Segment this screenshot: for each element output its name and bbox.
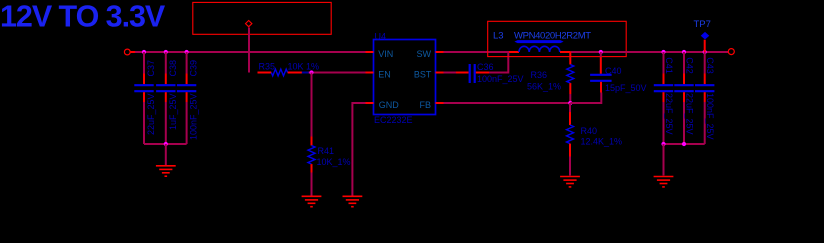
wire C36 to SW net — [489, 52, 508, 73]
resistor R35 — [258, 62, 320, 76]
wire R41 to ground — [311, 173, 313, 196]
ground R40 — [560, 177, 580, 187]
wire output caps bottom bus — [664, 143, 705, 145]
resistor R40 — [567, 103, 623, 157]
wire FB to node — [444, 102, 571, 104]
capacitor C36 — [456, 62, 524, 84]
wire from port diamond down to R35 — [248, 28, 250, 73]
IC U4 buck regulator EC2232E — [366, 31, 444, 125]
svg-text:C38: C38 — [168, 60, 178, 77]
wire input caps bottom bus — [144, 143, 187, 145]
svg-text:L3: L3 — [493, 31, 504, 42]
svg-text:R36: R36 — [531, 70, 548, 80]
port diamond (12V net connector) — [246, 21, 252, 27]
node EN — [309, 70, 313, 74]
svg-text:EN: EN — [378, 70, 391, 80]
svg-text:1uF_25V: 1uF_25V — [168, 94, 178, 131]
svg-text:22uF_25V: 22uF_25V — [146, 94, 156, 136]
pin EN — [366, 72, 374, 74]
wire FB node to C40 bottom — [570, 93, 601, 104]
svg-text:R35: R35 — [259, 62, 276, 72]
svg-text:10K 1%: 10K 1% — [288, 62, 320, 72]
svg-text:EC2232E: EC2232E — [374, 115, 413, 125]
wire R36 to FB node — [569, 94, 571, 103]
inductor L3 — [493, 30, 591, 52]
wire R35 to EN — [302, 72, 366, 74]
svg-text:C36: C36 — [477, 62, 494, 72]
node input-C39 — [185, 50, 189, 54]
node output bottom C42 — [682, 142, 686, 146]
pin BST — [436, 72, 444, 74]
svg-text:R41: R41 — [318, 146, 335, 156]
svg-text:GND: GND — [379, 100, 400, 110]
svg-text:10K_1%: 10K_1% — [317, 157, 351, 167]
svg-text:100nF_25V: 100nF_25V — [477, 74, 524, 84]
wire to output ground — [663, 144, 665, 176]
svg-text:100nF_25V: 100nF_25V — [705, 93, 715, 140]
wire U4 GND to ground — [352, 103, 365, 196]
svg-text:22uF_25V: 22uF_25V — [664, 93, 674, 135]
capacitor C43 — [695, 52, 715, 144]
capacitor C42 — [674, 52, 694, 144]
capacitor C39 — [177, 52, 199, 144]
wire R40 to ground — [569, 157, 571, 176]
node C42 top — [682, 50, 686, 54]
node C41 top — [661, 50, 665, 54]
node input-C37 — [142, 50, 146, 54]
red highlight box (input port area) — [193, 2, 331, 34]
svg-text:12V TO 3.3V: 12V TO 3.3V — [0, 0, 166, 34]
red highlight box (inductor area) — [488, 21, 627, 56]
ground input caps — [156, 166, 176, 176]
ground U4 — [343, 196, 363, 206]
capacitor C41 — [654, 52, 674, 144]
svg-text:C37: C37 — [146, 60, 156, 77]
resistor R41 — [308, 137, 351, 173]
wire EN node down to R41 — [311, 73, 313, 137]
svg-text:C41: C41 — [664, 57, 674, 74]
resistor R36 — [527, 52, 574, 94]
node C43/TP7 top — [703, 50, 707, 54]
test point TP7 — [694, 19, 711, 52]
svg-text:C43: C43 — [705, 57, 715, 74]
node FB — [568, 101, 572, 105]
svg-text:SW: SW — [417, 49, 432, 59]
svg-text:12.4K_1%: 12.4K_1% — [581, 137, 623, 147]
pin FB — [436, 102, 444, 104]
ground R41 — [302, 196, 322, 206]
ground output caps — [654, 177, 674, 187]
output terminal circle — [728, 49, 734, 55]
svg-text:22uF_25V: 22uF_25V — [684, 93, 694, 135]
pin VIN — [366, 51, 374, 53]
node output bottom C41 — [661, 142, 665, 146]
svg-text:TP7: TP7 — [694, 19, 711, 30]
svg-text:FB: FB — [419, 100, 431, 110]
svg-text:C39: C39 — [189, 60, 199, 77]
svg-text:WPN4020H2R2MT: WPN4020H2R2MT — [514, 30, 591, 41]
svg-text:U4: U4 — [375, 31, 387, 41]
node input-C38 — [164, 50, 168, 54]
wire segment (drawn dark blue in source) — [302, 72, 309, 74]
capacitor C40 — [590, 52, 646, 93]
wire to input ground — [165, 144, 167, 165]
wire BST to C36 — [444, 72, 457, 74]
wire input rail 12V — [135, 51, 366, 53]
svg-text:BST: BST — [414, 70, 432, 80]
svg-text:R40: R40 — [581, 126, 598, 136]
svg-text:C40: C40 — [605, 66, 622, 76]
pin SW — [436, 51, 444, 53]
svg-text:C42: C42 — [684, 57, 694, 74]
svg-text:100nF_25V: 100nF_25V — [189, 94, 199, 141]
capacitor C38 — [156, 52, 178, 144]
svg-text:VIN: VIN — [378, 49, 393, 59]
wire SW to inductor — [444, 51, 510, 53]
node input bottom — [164, 142, 168, 146]
node C40 top — [599, 50, 603, 54]
svg-text:15pF_50V: 15pF_50V — [605, 83, 647, 93]
wire output rail 3.3V — [571, 51, 729, 53]
pin GND — [366, 102, 374, 104]
svg-text:56K_1%: 56K_1% — [527, 82, 561, 92]
input terminal circle — [124, 49, 130, 55]
input terminal stub — [131, 51, 136, 53]
capacitor C37 — [134, 52, 156, 144]
